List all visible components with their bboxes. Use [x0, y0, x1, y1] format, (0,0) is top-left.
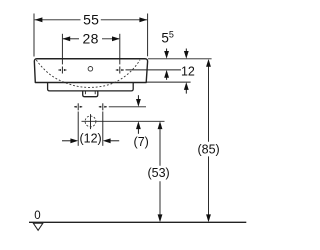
svg-text:(12): (12)	[79, 132, 101, 146]
svg-text:12: 12	[181, 65, 195, 79]
svg-text:(85): (85)	[197, 143, 219, 157]
svg-text:0: 0	[34, 210, 40, 222]
svg-text:55: 55	[83, 11, 99, 27]
svg-text:(53): (53)	[147, 166, 169, 180]
svg-text:28: 28	[83, 30, 99, 46]
svg-text:(7): (7)	[134, 135, 149, 149]
